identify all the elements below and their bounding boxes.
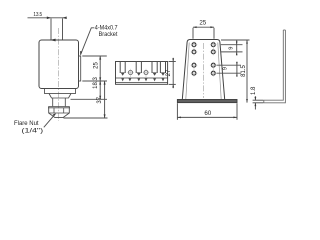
svg-text:13.5: 13.5 [33,12,42,18]
node hole A1 [192,43,215,75]
dimension right extension lines of valve [82,55,107,57]
node bend line right [218,43,221,100]
node tapped slot 2 [136,62,141,74]
svg-text:1.8: 1.8 [251,86,257,95]
node flare nut body [49,108,70,118]
svg-text:Bracket: Bracket [99,31,118,38]
node L bracket profile [264,30,284,100]
dimension 1.8 [253,99,264,101]
node hole A4 [192,71,196,75]
node serration teeth [121,78,164,81]
svg-text:Flare Nut: Flare Nut [14,121,39,127]
node side-view hole 1 [129,71,133,75]
wire background [0,0,300,143]
svg-text:(1/4"): (1/4") [22,128,44,134]
dimension 13.5 line [28,17,67,19]
node hole centermarks [191,45,217,73]
dimension 60 [176,103,178,120]
node hole B3 [211,63,215,67]
svg-text:25: 25 [93,62,99,69]
dimension 81.5 [246,40,248,103]
dimension 25 chain [99,56,101,99]
node base flange [177,100,237,103]
dimension 27 [169,61,176,63]
svg-text:81.5: 81.5 [241,65,247,77]
node neck [53,98,66,107]
node tapped slot 3 [152,62,157,74]
node bracket front view centerline [203,43,205,98]
node bend line left [186,43,189,100]
dimension 9 upper [236,40,238,55]
node bracket side view outline [116,62,168,85]
node left-view centerline [58,28,60,121]
dimension 18.3 chain [99,81,101,85]
node bracket tab [79,56,81,81]
svg-text:9: 9 [228,47,234,50]
svg-text:60: 60 [204,110,211,117]
dimension 13.5 extension lines [50,18,52,39]
node step trapezoid [49,94,71,99]
node nut top flange [49,107,70,108]
svg-text:18.3: 18.3 [93,77,99,89]
node hole B2 [211,50,215,54]
svg-text:25: 25 [199,20,206,27]
dimension extension lines right bracket [221,39,250,41]
dimension 9 lower [236,62,238,77]
dimension 37 chain [104,81,106,118]
node bracket front outline [182,40,224,100]
node tapped slot 4 [160,62,165,74]
svg-text:9: 9 [223,67,229,70]
node tapped slot 1 [120,62,125,74]
node leader 4-M4x0.7 [81,28,95,55]
node hole A2 [192,50,196,54]
node side-view hole 2 [144,71,148,75]
svg-text:27: 27 [166,69,172,76]
node valve body [39,40,79,89]
svg-text:37: 37 [97,96,103,103]
node hole A3 [192,63,196,67]
node hole B1 [211,43,215,47]
node top edge arrow [50,39,56,42]
node leader flare nut [44,114,56,128]
node lower flange [45,89,76,94]
node hole B4 [211,71,215,75]
